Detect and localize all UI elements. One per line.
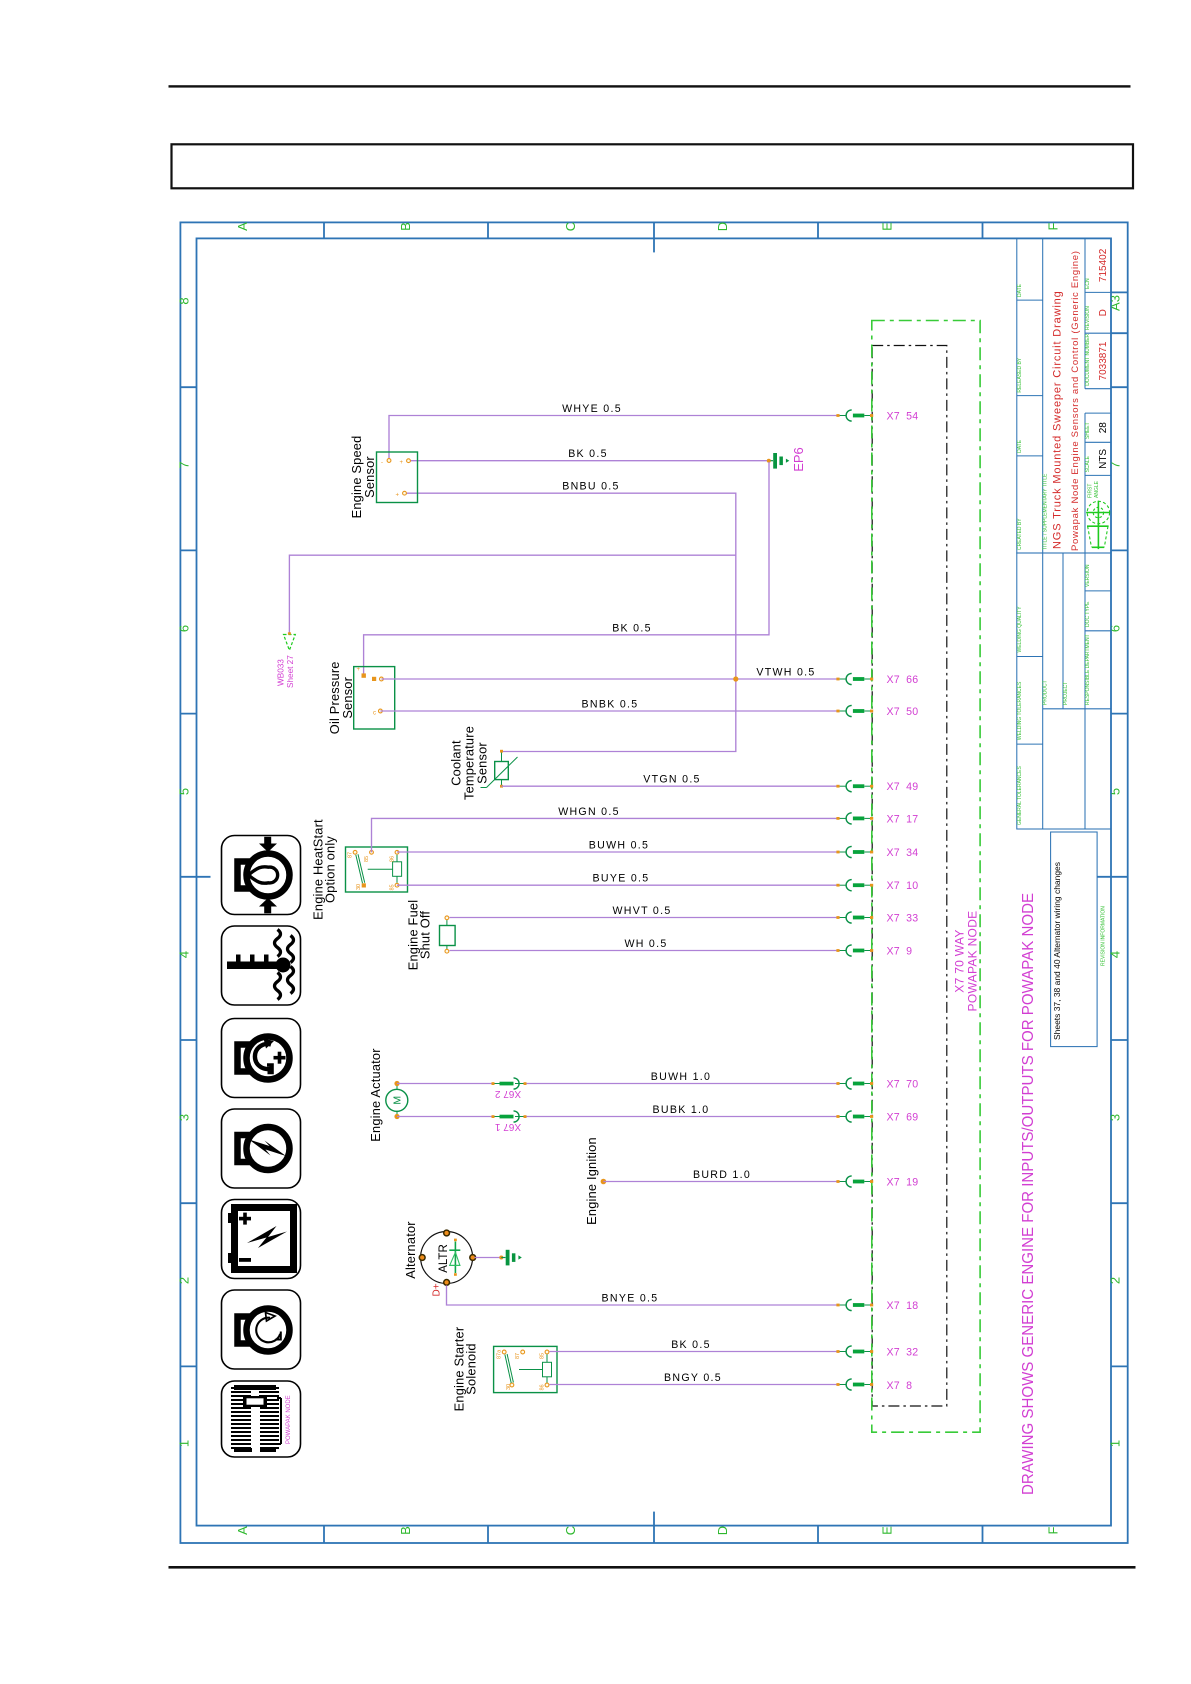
svg-text:BNBU 0.5: BNBU 0.5 — [562, 481, 620, 493]
frame grid numbers right / sheet size A3 — [1108, 295, 1123, 1447]
off sheet arrow WB033 — [277, 632, 296, 688]
connector pin X7 18 — [836, 1299, 918, 1312]
frame grid letters top — [235, 222, 1061, 231]
wire WHYE engine speed to X7 54 — [389, 416, 838, 461]
svg-text:c: c — [373, 711, 376, 717]
svg-text:X7 9: X7 9 — [887, 946, 913, 958]
svg-text:Sensor: Sensor — [362, 456, 377, 498]
svg-text:BNGY 0.5: BNGY 0.5 — [664, 1372, 722, 1384]
svg-text:BK 0.5: BK 0.5 — [671, 1339, 711, 1351]
wire BUYE to X7 10 — [397, 884, 838, 886]
connector pin X7 69 — [836, 1111, 918, 1124]
svg-text:X7 54: X7 54 — [887, 411, 919, 423]
svg-text:Solenoid: Solenoid — [464, 1343, 479, 1394]
svg-text:FIRST: FIRST — [1088, 484, 1094, 498]
svg-text:Sheet 27: Sheet 27 — [286, 655, 295, 688]
svg-text:X7 17: X7 17 — [887, 813, 919, 825]
powapak node inner black dash-dot boundary — [872, 346, 947, 1407]
svg-text:SCALE: SCALE — [1085, 455, 1091, 472]
icon battery warning — [222, 1200, 301, 1279]
icon battery charge warning — [222, 1019, 301, 1098]
svg-text:5: 5 — [1108, 788, 1123, 795]
connector pin X7 19 — [836, 1176, 918, 1189]
inline connector X67 2 — [492, 1078, 527, 1099]
svg-text:WHGN 0.5: WHGN 0.5 — [558, 806, 620, 818]
svg-text:X7 69: X7 69 — [887, 1112, 919, 1124]
inline connector X67 1 — [492, 1111, 527, 1132]
svg-text:BK 0.5: BK 0.5 — [612, 622, 652, 634]
svg-text:TITLE / SUPPLEMENTARY TITLE: TITLE / SUPPLEMENTARY TITLE — [1043, 473, 1049, 550]
connector pin X7 34 — [836, 846, 918, 859]
frame row ticks left — [180, 387, 210, 1366]
wire branch to WB033 — [289, 555, 735, 633]
svg-text:87a: 87a — [497, 1349, 503, 1359]
svg-text:BUWH 0.5: BUWH 0.5 — [589, 839, 649, 851]
svg-text:X7 32: X7 32 — [887, 1347, 919, 1359]
svg-text:7: 7 — [1108, 461, 1123, 468]
frame grid numbers left — [177, 297, 192, 1447]
svg-text:Sensor: Sensor — [340, 676, 355, 718]
svg-text:F: F — [1046, 222, 1061, 230]
wire BNGY to X7 8 — [550, 1384, 839, 1386]
svg-text:D: D — [1098, 309, 1109, 316]
svg-text:ALTR: ALTR — [438, 1244, 450, 1273]
svg-text:BUWH 1.0: BUWH 1.0 — [651, 1071, 711, 1083]
wire BNBU engine speed sensor — [405, 493, 736, 751]
svg-text:A: A — [235, 222, 250, 231]
svg-text:X7 8: X7 8 — [887, 1380, 913, 1392]
svg-text:A: A — [235, 1526, 250, 1535]
svg-text:X7 10: X7 10 — [887, 880, 919, 892]
icon glow plug warning — [222, 1109, 301, 1188]
svg-text:Alternator: Alternator — [403, 1221, 418, 1279]
junction at EP6 — [768, 459, 771, 462]
svg-text:BUYE 0.5: BUYE 0.5 — [593, 873, 650, 885]
svg-text:87: 87 — [348, 852, 354, 858]
svg-text:VTWH 0.5: VTWH 0.5 — [756, 667, 815, 679]
engine fuel shut off valve — [440, 916, 456, 953]
svg-text:C: C — [563, 1526, 578, 1535]
svg-text:ECN: ECN — [1085, 278, 1091, 289]
engine heatstart relay — [346, 847, 408, 892]
svg-text:DOCUMENT NUMBER: DOCUMENT NUMBER — [1085, 333, 1091, 385]
svg-text:+: + — [356, 667, 360, 673]
wire BUBK 1.0 to X7 69 — [397, 1116, 493, 1118]
coolant temperature sensor — [481, 750, 518, 788]
connector pin X7 10 — [836, 880, 918, 893]
svg-text:WB033: WB033 — [277, 659, 286, 686]
top page rule — [169, 85, 1131, 87]
wire BNBK to X7 50 — [380, 710, 838, 712]
TITLE BLOCK revision box — [1051, 832, 1098, 1047]
connector pin X7 49 — [836, 781, 918, 794]
wire BUWH to X7 34 — [397, 851, 838, 853]
alternator — [419, 1230, 475, 1285]
svg-text:2: 2 — [1108, 1277, 1123, 1284]
svg-text:ANGLE: ANGLE — [1094, 480, 1100, 498]
title block values — [1098, 248, 1109, 469]
svg-text:X7 50: X7 50 — [887, 706, 919, 718]
svg-text:A3: A3 — [1108, 295, 1123, 311]
svg-text:SHEET: SHEET — [1085, 422, 1091, 439]
svg-text:X7 19: X7 19 — [887, 1177, 919, 1189]
icon coolant temperature warning — [222, 926, 301, 1005]
svg-text:POWAPAK NODE: POWAPAK NODE — [286, 1395, 292, 1444]
drawing frame outer border — [180, 222, 1127, 1543]
svg-text:6: 6 — [177, 625, 192, 632]
svg-text:Engine Ignition: Engine Ignition — [584, 1137, 599, 1225]
wire BUWH 1.0 to X7 70 — [397, 1083, 493, 1085]
engine starter solenoid relay — [494, 1346, 557, 1392]
svg-text:BK 0.5: BK 0.5 — [568, 448, 608, 460]
svg-text:VTGN 0.5: VTGN 0.5 — [643, 774, 701, 786]
TITLE BLOCK SECTION 1 lines — [1017, 238, 1111, 553]
wire BNYE to X7 18 — [447, 1285, 839, 1305]
svg-text:GENERAL TOLERANCES: GENERAL TOLERANCES — [1017, 766, 1023, 825]
engine speed sensor U1 — [377, 452, 418, 503]
svg-text:28: 28 — [1098, 422, 1109, 434]
svg-text:WELDING TOLERANCES: WELDING TOLERANCES — [1017, 681, 1023, 740]
svg-text:Sensor: Sensor — [475, 742, 490, 784]
svg-text:M: M — [392, 1096, 404, 1105]
svg-text:NGS Truck Mounted Sweeper Circ: NGS Truck Mounted Sweeper Circuit Drawin… — [1052, 290, 1064, 549]
svg-text:DOC TYPE: DOC TYPE — [1085, 601, 1091, 627]
connector pin X7 50 — [836, 705, 918, 718]
frame column ticks top — [324, 222, 983, 252]
drawing frame inner border — [197, 238, 1112, 1525]
frame column ticks bottom — [324, 1512, 983, 1543]
header empty box — [172, 144, 1134, 188]
svg-text:X7 18: X7 18 — [887, 1300, 919, 1312]
svg-text:7: 7 — [177, 461, 192, 468]
svg-text:30: 30 — [506, 1384, 512, 1390]
svg-text:1: 1 — [177, 1440, 192, 1447]
svg-text:85: 85 — [364, 856, 370, 862]
wire VTWH to X7 66 — [381, 678, 838, 680]
svg-text:BUBK 1.0: BUBK 1.0 — [653, 1104, 710, 1116]
svg-text:BURD 1.0: BURD 1.0 — [693, 1169, 751, 1181]
svg-text:X7 70 WAY: X7 70 WAY — [953, 929, 967, 992]
svg-text:B: B — [398, 222, 413, 231]
svg-text:E: E — [880, 1526, 895, 1535]
icon engine preheat / restart — [222, 1290, 301, 1369]
svg-text:4: 4 — [1108, 951, 1123, 958]
svg-text:Powapak Node Engine Sensors an: Powapak Node Engine Sensors and Control … — [1070, 250, 1081, 551]
svg-text:WELDING QUALITY: WELDING QUALITY — [1017, 606, 1023, 653]
svg-text:85: 85 — [539, 1353, 545, 1359]
wire BURD 1.0 to X7 19 — [603, 1181, 838, 1183]
svg-text:X67 1: X67 1 — [494, 1121, 521, 1132]
svg-text:Sheets 37, 38 and 40 Alternato: Sheets 37, 38 and 40 Alternator wiring c… — [1053, 862, 1062, 1040]
engine actuator motor — [386, 1081, 408, 1119]
first angle projection symbol — [1086, 501, 1110, 549]
wire WH to X7 9 — [450, 950, 839, 952]
svg-text:X7 34: X7 34 — [887, 847, 919, 859]
svg-text:REVISION INFORMATION: REVISION INFORMATION — [1101, 906, 1107, 966]
svg-text:X7 66: X7 66 — [887, 674, 919, 686]
svg-text:PROJECT: PROJECT — [1063, 682, 1069, 705]
wire BK engine speed to EP6 — [409, 460, 769, 462]
bottom page rule — [169, 1566, 1136, 1569]
svg-text:715402: 715402 — [1098, 248, 1109, 282]
wire VTGN to X7 49 — [502, 785, 839, 787]
svg-text:86: 86 — [389, 856, 395, 862]
svg-text:REVISION: REVISION — [1085, 306, 1091, 330]
svg-text:RESPONSIBLE DEPARTMENT: RESPONSIBLE DEPARTMENT — [1085, 634, 1091, 705]
svg-text:Engine Actuator: Engine Actuator — [368, 1048, 383, 1142]
svg-text:C: C — [563, 222, 578, 231]
connector pin X7 54 — [836, 410, 918, 423]
svg-text:Shut Off: Shut Off — [418, 911, 433, 960]
svg-text:8: 8 — [177, 297, 192, 304]
powapak node connector green dash-dot boundary — [872, 321, 980, 1433]
icon powapak node module — [222, 1381, 301, 1457]
frame row ticks right — [1097, 292, 1128, 1366]
ground at alternator — [499, 1250, 522, 1266]
svg-text:87: 87 — [515, 1353, 521, 1359]
engine ignition node — [601, 1179, 607, 1185]
svg-text:DATE: DATE — [1017, 439, 1023, 453]
svg-text:PRODUCT: PRODUCT — [1043, 680, 1049, 705]
svg-text:-: - — [381, 460, 383, 466]
svg-text:85: 85 — [389, 884, 395, 890]
connector pin X7 32 — [836, 1346, 918, 1359]
svg-text:X67 2: X67 2 — [494, 1088, 521, 1099]
svg-text:Option only: Option only — [323, 836, 338, 903]
wire alternator to ground — [475, 1257, 502, 1259]
wire BK to X7 32 — [550, 1351, 839, 1353]
TITLE BLOCK SECTION 2 lines — [1017, 553, 1111, 829]
svg-text:WHVT 0.5: WHVT 0.5 — [612, 905, 671, 917]
oil pressure sensor — [354, 667, 395, 729]
svg-text:NTS: NTS — [1098, 449, 1109, 469]
svg-text:5: 5 — [177, 788, 192, 795]
connector pin X7 33 — [836, 912, 918, 925]
svg-text:X7 33: X7 33 — [887, 913, 919, 925]
svg-text:F: F — [1046, 1526, 1061, 1534]
junction dot VTWH — [733, 676, 738, 681]
svg-text:X7 70: X7 70 — [887, 1079, 919, 1091]
svg-text:7033871: 7033871 — [1098, 341, 1109, 380]
frame grid letters bottom — [235, 1526, 1061, 1535]
svg-text:D+: D+ — [432, 1283, 443, 1296]
svg-text:+: + — [395, 493, 399, 499]
svg-text:RELEASED BY: RELEASED BY — [1017, 357, 1023, 392]
title block small green labels column1 — [1017, 278, 1107, 966]
ground EP6 — [767, 447, 806, 472]
connector pin X7 70 — [836, 1078, 918, 1091]
svg-text:VERSION: VERSION — [1085, 564, 1091, 587]
svg-text:1: 1 — [1108, 1440, 1123, 1447]
svg-text:B: B — [398, 1526, 413, 1535]
svg-text:D: D — [715, 222, 730, 231]
icon oil-level warning — [222, 836, 301, 915]
svg-text:DATE: DATE — [1017, 283, 1023, 297]
connector pin X7 9 — [836, 945, 912, 958]
wire WHVT to X7 33 — [450, 917, 839, 919]
connector pin X7 17 — [836, 813, 918, 826]
svg-text:3: 3 — [1108, 1114, 1123, 1121]
svg-text:BNYE 0.5: BNYE 0.5 — [602, 1292, 659, 1304]
wire BK oil pressure to EP6 — [364, 461, 769, 676]
svg-text:2: 2 — [177, 1277, 192, 1284]
svg-text:X7 49: X7 49 — [887, 781, 919, 793]
svg-text:DRAWING SHOWS GENERIC ENGIN: DRAWING SHOWS GENERIC ENGINE FOR INPUTS/… — [1020, 893, 1037, 1495]
svg-text:4: 4 — [177, 951, 192, 958]
svg-text:WH 0.5: WH 0.5 — [624, 938, 667, 950]
svg-text:POWAPAK NODE: POWAPAK NODE — [966, 911, 980, 1012]
wire WHGN to X7 17 — [372, 818, 839, 852]
svg-text:D: D — [715, 1526, 730, 1535]
svg-text:BNBK 0.5: BNBK 0.5 — [582, 699, 639, 711]
svg-text:3: 3 — [177, 1114, 192, 1121]
connector pin X7 66 — [836, 673, 918, 686]
svg-text:WHYE 0.5: WHYE 0.5 — [562, 403, 622, 415]
svg-text:CREATED BY: CREATED BY — [1017, 518, 1023, 550]
svg-text:30: 30 — [356, 884, 362, 890]
svg-text:EP6: EP6 — [791, 447, 806, 472]
svg-text:86: 86 — [539, 1384, 545, 1390]
svg-text:+: + — [399, 460, 403, 466]
svg-text:E: E — [880, 222, 895, 231]
connector pin X7 8 — [836, 1379, 912, 1392]
